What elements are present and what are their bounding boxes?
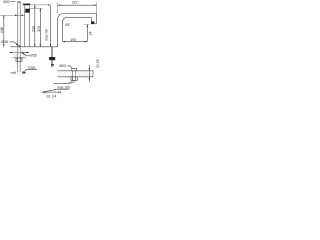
label 248 (rotated) — [0, 27, 4, 33]
label G1 1/4 — [46, 95, 56, 99]
label 65deg — [65, 23, 71, 27]
193 dimension — [63, 41, 88, 42]
leader for Ø30 — [11, 1, 15, 3]
label G3/8 with leader — [23, 66, 37, 73]
label 30-55 (rotated) — [96, 59, 100, 68]
top extension line from cap — [30, 4, 51, 6]
faucet body (front view) — [23, 4, 30, 47]
svg-text:193: 193 — [70, 38, 76, 42]
left height dimension line — [3, 15, 5, 47]
mounting nut (front) — [16, 58, 22, 61]
label Ø35 with leader — [21, 52, 36, 57]
pipe diameter arrows — [15, 15, 23, 16]
svg-text:30-55: 30-55 — [96, 59, 100, 68]
svg-text:max.40: max.40 — [44, 29, 48, 41]
bottom-right countertop section — [58, 71, 94, 77]
left dimension arrows — [3, 15, 4, 47]
label max.160 with leader — [42, 86, 70, 93]
bottom-left counter section — [13, 52, 26, 57]
label 193 — [70, 38, 76, 42]
deck line — [10, 46, 57, 48]
side view spout outline — [58, 14, 97, 47]
svg-text:Ø63: Ø63 — [59, 64, 66, 68]
svg-text:65°: 65° — [65, 23, 71, 27]
hoses — [67, 80, 75, 83]
aerator tip — [91, 21, 94, 23]
Ø35 hole dimension arrows — [10, 52, 29, 53]
spout pipe column (front view) — [17, 2, 20, 59]
svg-text:Ø30: Ø30 — [3, 0, 10, 4]
nut below countertop — [71, 77, 77, 81]
supply shank below nut — [18, 61, 21, 72]
svg-text:222: 222 — [72, 0, 78, 4]
label 222 — [72, 0, 78, 4]
handle knob — [25, 9, 29, 13]
dimension line max.40 — [49, 5, 51, 47]
label max.40 (rotated) — [44, 29, 48, 41]
svg-text:309: 309 — [37, 26, 41, 32]
label 309 (rotated) — [37, 26, 41, 32]
label 233 (rotated) — [32, 26, 36, 32]
svg-text:Ø35: Ø35 — [30, 54, 37, 58]
svg-text:G1 1/4: G1 1/4 — [46, 95, 56, 99]
dimension line 309 — [39, 8, 41, 46]
hose end line — [54, 83, 67, 85]
G1 1/4 dimension — [43, 91, 61, 94]
extension line at outlet level — [0, 14, 25, 16]
side view shank below deck — [49, 47, 55, 68]
extension line from knob — [30, 7, 43, 9]
dimension line 233 — [34, 5, 36, 47]
label Ø30 — [3, 0, 10, 4]
shank through countertop — [72, 71, 75, 77]
svg-text:Ø48: Ø48 — [1, 40, 8, 44]
svg-text:248: 248 — [0, 27, 4, 33]
label Ø48 with leader — [1, 40, 20, 47]
bottom shank dimension — [11, 71, 26, 74]
label Ø63 with leader — [59, 64, 72, 68]
arrow at right end of top extension — [48, 4, 51, 5]
24 dimension — [84, 25, 89, 42]
222 dimension — [58, 3, 97, 14]
svg-text:24: 24 — [89, 31, 93, 35]
label 24 (rotated) — [89, 31, 93, 35]
countertop thickness dimension — [89, 65, 90, 82]
svg-text:233: 233 — [32, 26, 36, 32]
flange on countertop — [72, 68, 77, 70]
